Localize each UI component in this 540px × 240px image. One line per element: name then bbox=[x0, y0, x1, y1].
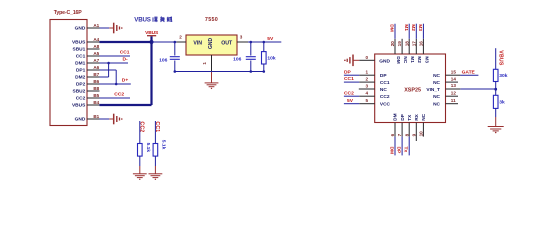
connector pin B1 GND bbox=[75, 114, 100, 123]
resistor R2 30k body bbox=[493, 69, 498, 81]
U1 pin 5 VCC bbox=[344, 98, 391, 107]
U1 pin 15 NC bbox=[433, 69, 460, 79]
U1 pin 8 TX (bottom) bbox=[404, 114, 413, 156]
wire R3 to ground bbox=[495, 108, 497, 126]
capacitor C2 106 bottom wire bbox=[250, 61, 252, 72]
svg-text:GND: GND bbox=[379, 58, 390, 64]
wire B1 GND bbox=[100, 118, 114, 120]
svg-text:A6: A6 bbox=[93, 65, 99, 70]
U1 pin 12 NC bbox=[433, 90, 458, 100]
ground stem under U2 bbox=[211, 72, 213, 83]
svg-text:SBU2: SBU2 bbox=[73, 89, 86, 95]
svg-text:RX: RX bbox=[414, 113, 420, 120]
wire DP1 A6 to vertical bbox=[100, 70, 117, 84]
svg-text:M2: M2 bbox=[416, 56, 422, 63]
svg-text:GND: GND bbox=[75, 117, 86, 123]
node C2 bottom junction bbox=[250, 70, 253, 73]
wire CC2 from B5 bbox=[100, 97, 131, 99]
capacitor C1 106 bottom wire bbox=[174, 61, 176, 72]
svg-text:DP: DP bbox=[396, 147, 402, 155]
svg-text:2: 2 bbox=[179, 35, 182, 40]
svg-text:GND: GND bbox=[75, 26, 86, 32]
wire A1 GND bbox=[100, 27, 114, 29]
U1 pin 16 M3 (top) bbox=[419, 24, 430, 64]
svg-text:13: 13 bbox=[451, 83, 457, 88]
svg-text:A7: A7 bbox=[93, 58, 99, 63]
svg-text:TX: TX bbox=[407, 114, 413, 121]
svg-text:NC: NC bbox=[402, 56, 408, 63]
svg-text:5V: 5V bbox=[267, 36, 274, 42]
power port VBUS bbox=[145, 30, 159, 36]
U1 pin 2 CC1 bbox=[344, 77, 390, 86]
svg-text:DM: DM bbox=[389, 24, 395, 32]
svg-text:CC2: CC2 bbox=[380, 94, 390, 100]
svg-text:D-: D- bbox=[123, 57, 129, 63]
U1 pin 11 NC bbox=[433, 98, 458, 108]
U1 pin 6 DM (bottom) bbox=[390, 113, 399, 155]
U1 pin 7 DP (bottom) bbox=[397, 113, 406, 155]
svg-text:DP: DP bbox=[344, 69, 352, 75]
svg-text:XSP25: XSP25 bbox=[404, 87, 421, 93]
svg-text:B5: B5 bbox=[93, 93, 99, 98]
svg-text:B8: B8 bbox=[93, 86, 99, 91]
svg-text:5: 5 bbox=[365, 98, 368, 103]
svg-text:NC: NC bbox=[380, 87, 387, 93]
label VBUS to load (Chinese) bbox=[134, 17, 172, 24]
svg-text:NC: NC bbox=[433, 102, 440, 108]
svg-text:B1: B1 bbox=[93, 114, 99, 119]
svg-text:M1: M1 bbox=[403, 24, 409, 31]
U1 pin 14 NC bbox=[433, 76, 458, 86]
svg-text:NC: NC bbox=[421, 113, 427, 120]
ground under 5.1k (CC2) bbox=[133, 174, 147, 180]
wire VBUS to R2 bbox=[495, 48, 497, 69]
node divider mid junction bbox=[494, 88, 497, 91]
svg-text:DM: DM bbox=[393, 113, 399, 120]
svg-text:M2: M2 bbox=[410, 24, 416, 31]
svg-text:16: 16 bbox=[419, 41, 424, 47]
svg-text:CC1: CC1 bbox=[120, 50, 130, 56]
svg-text:B6: B6 bbox=[93, 79, 99, 84]
wire 5V output rail bbox=[248, 41, 281, 43]
ground at connector pin B1 bbox=[114, 114, 123, 125]
ground under divider bbox=[488, 127, 504, 134]
ground at U1 pin 0 bbox=[344, 55, 353, 67]
node bottom-left junction bbox=[174, 70, 177, 73]
svg-text:CC1: CC1 bbox=[380, 80, 390, 86]
svg-text:6: 6 bbox=[390, 133, 395, 136]
capacitor C1 106 plates bbox=[170, 57, 180, 60]
svg-text:1: 1 bbox=[365, 70, 368, 75]
U1 pin 18 M1 (top) bbox=[404, 24, 415, 64]
wire VBUS rail to U2 pin 2 bbox=[152, 41, 177, 43]
wire VIN_T from U1 pin 13 to divider bbox=[460, 88, 495, 90]
wire CC1 pulldown bottom bbox=[154, 156, 156, 174]
svg-text:12: 12 bbox=[451, 90, 457, 95]
U2 pin 2 stub bbox=[177, 41, 187, 43]
U1 pin 13 VIN_T bbox=[426, 83, 460, 93]
connector pin A7 DM1 bbox=[75, 58, 99, 67]
svg-text:7: 7 bbox=[397, 133, 402, 136]
connector pin B5 CC2 bbox=[76, 93, 100, 102]
U1 pin 0 GND stub bbox=[353, 59, 374, 61]
svg-text:7550: 7550 bbox=[205, 17, 218, 23]
svg-text:GND: GND bbox=[208, 37, 214, 49]
svg-text:A4: A4 bbox=[93, 37, 99, 42]
svg-text:VBUS: VBUS bbox=[72, 103, 86, 109]
svg-text:10: 10 bbox=[419, 131, 424, 137]
node resistor R1 tap bbox=[263, 41, 266, 44]
U1 pin 19 NC (top) bbox=[397, 39, 408, 64]
svg-text:CC2: CC2 bbox=[114, 92, 124, 98]
svg-text:CC2: CC2 bbox=[76, 96, 86, 102]
wire GATE from U1 pin 15 bbox=[460, 74, 478, 76]
svg-text:19: 19 bbox=[397, 41, 402, 47]
node D+ junction on B6 wire bbox=[115, 83, 118, 86]
svg-text:DP2: DP2 bbox=[76, 82, 86, 88]
resistor R1 10k bottom wire bbox=[263, 64, 265, 72]
svg-text:M3: M3 bbox=[417, 24, 423, 31]
svg-text:OUT: OUT bbox=[221, 41, 233, 47]
svg-text:2: 2 bbox=[365, 77, 368, 82]
wire D- from A7 bbox=[100, 62, 129, 64]
connector pin A5 CC1 bbox=[76, 51, 100, 60]
svg-text:A5: A5 bbox=[93, 51, 99, 56]
resistor 5.1k (CC1) body bbox=[153, 144, 158, 157]
svg-text:DP: DP bbox=[380, 73, 387, 79]
U1 pin 9 RX (bottom) bbox=[411, 113, 420, 141]
wire CC1 pulldown top bbox=[154, 121, 156, 144]
connector pin A1 GND bbox=[75, 23, 100, 32]
wire CC2 pulldown bottom bbox=[139, 156, 141, 174]
svg-text:B4: B4 bbox=[93, 100, 99, 105]
node capacitor C1 tap bbox=[174, 41, 177, 44]
regulator U2 7550 body bbox=[186, 35, 237, 55]
U1 pin 20 DM (top) bbox=[390, 24, 401, 64]
U1 pin 4 CC2 bbox=[344, 91, 390, 100]
svg-text:A8: A8 bbox=[93, 44, 99, 49]
svg-text:B7: B7 bbox=[93, 72, 99, 77]
wire R2 to R3 bbox=[495, 82, 497, 96]
connector pin B7 DM2 bbox=[75, 72, 99, 81]
node D- junction on A7 wire bbox=[107, 62, 110, 65]
svg-text:M1: M1 bbox=[409, 56, 415, 63]
resistor R1 10k top wire bbox=[263, 42, 265, 52]
node R1 bottom junction bbox=[263, 70, 266, 73]
svg-text:1: 1 bbox=[202, 62, 207, 65]
svg-text:DM1: DM1 bbox=[75, 61, 85, 67]
svg-text:NC: NC bbox=[433, 80, 440, 86]
capacitor C1 106 top wire bbox=[174, 42, 176, 56]
svg-text:106: 106 bbox=[233, 56, 241, 62]
svg-text:VCC: VCC bbox=[380, 102, 391, 108]
wire D+ from B6 bbox=[100, 83, 131, 85]
U1 pin 3 NC bbox=[359, 83, 388, 92]
wire CC2 pulldown top bbox=[139, 121, 141, 144]
svg-text:VBUS: VBUS bbox=[72, 40, 86, 46]
connector pin B4 VBUS bbox=[72, 100, 100, 109]
svg-text:15: 15 bbox=[451, 69, 457, 74]
svg-text:Type-C_16P: Type-C_16P bbox=[54, 10, 83, 16]
connector J1 body bbox=[50, 20, 87, 126]
svg-text:3: 3 bbox=[365, 83, 368, 88]
svg-text:8: 8 bbox=[404, 133, 409, 136]
U2 pin 3 stub bbox=[237, 41, 248, 43]
svg-text:11: 11 bbox=[451, 98, 456, 103]
svg-text:Tx: Tx bbox=[403, 147, 409, 153]
svg-text:GATE: GATE bbox=[462, 70, 476, 76]
connector pin B6 DP2 bbox=[76, 79, 100, 88]
svg-text:CC1: CC1 bbox=[344, 76, 354, 82]
svg-text:CC2: CC2 bbox=[139, 121, 145, 132]
resistor R1 10k body bbox=[262, 52, 267, 64]
svg-text:3: 3 bbox=[240, 34, 243, 39]
connector pin A8 SBU1 bbox=[73, 44, 100, 53]
svg-text:5.1k: 5.1k bbox=[161, 140, 167, 150]
svg-text:DP1: DP1 bbox=[76, 68, 86, 74]
connector pin A4 VBUS bbox=[72, 37, 100, 46]
svg-text:DP: DP bbox=[400, 113, 406, 120]
U2 pin 1 GND stub bbox=[211, 55, 213, 76]
svg-text:5V: 5V bbox=[347, 98, 354, 104]
svg-text:DM: DM bbox=[389, 147, 395, 155]
svg-text:14: 14 bbox=[451, 76, 457, 81]
svg-text:10k: 10k bbox=[267, 55, 275, 61]
ground under U2 7550 bbox=[205, 83, 219, 89]
ground under 5.1k (CC1) bbox=[149, 174, 163, 180]
svg-text:30k: 30k bbox=[499, 73, 507, 79]
svg-text:VBUS: VBUS bbox=[145, 30, 159, 36]
svg-text:0: 0 bbox=[365, 55, 368, 60]
svg-text:VIN: VIN bbox=[193, 41, 202, 47]
svg-text:NC: NC bbox=[433, 94, 440, 100]
svg-text:VBUS: VBUS bbox=[134, 17, 150, 24]
capacitor C2 106 plates bbox=[246, 57, 256, 60]
U1 pin 1 DP bbox=[344, 70, 387, 79]
svg-text:9: 9 bbox=[411, 133, 416, 136]
svg-text:17: 17 bbox=[411, 41, 416, 47]
svg-text:CC1: CC1 bbox=[76, 54, 86, 60]
svg-text:5.1k: 5.1k bbox=[145, 143, 151, 153]
wire ground return (bottom) bbox=[175, 71, 264, 73]
IC U1 XSP25 body bbox=[375, 54, 446, 123]
svg-text:A1: A1 bbox=[93, 23, 99, 28]
U1 pin 10 NC (bottom) bbox=[419, 113, 428, 136]
svg-text:3k: 3k bbox=[499, 100, 505, 106]
U1 pin 17 M2 (top) bbox=[411, 24, 422, 64]
svg-text:M3: M3 bbox=[423, 56, 429, 63]
wire VBUS trunk (thick vertical) bbox=[150, 36, 152, 105]
wire DM2 B7 to vertical bbox=[100, 63, 109, 77]
svg-text:NC: NC bbox=[433, 73, 440, 79]
svg-text:VBUS: VBUS bbox=[497, 50, 503, 66]
svg-text:106: 106 bbox=[159, 57, 167, 63]
node capacitor C2 tap bbox=[250, 41, 253, 44]
resistor 5.1k (CC2) body bbox=[138, 144, 143, 157]
svg-text:20: 20 bbox=[390, 41, 395, 47]
node VBUS junction at A4 row bbox=[149, 40, 153, 44]
wire B4 VBUS (thick) bbox=[100, 104, 152, 106]
svg-text:CC2: CC2 bbox=[344, 90, 354, 96]
svg-text:D+: D+ bbox=[122, 78, 129, 84]
ground at connector pin A1 bbox=[114, 23, 123, 34]
svg-text:DM2: DM2 bbox=[75, 75, 85, 81]
connector pin A6 DP1 bbox=[76, 65, 100, 74]
svg-text:4: 4 bbox=[365, 91, 368, 96]
resistor R3 3k body bbox=[493, 95, 498, 108]
svg-text:VIN_T: VIN_T bbox=[426, 87, 440, 93]
svg-text:18: 18 bbox=[404, 41, 409, 47]
connector pin B8 SBU2 bbox=[73, 86, 100, 95]
svg-text:CC1: CC1 bbox=[154, 121, 160, 132]
wire A4 VBUS (thick) bbox=[100, 41, 152, 43]
capacitor C2 106 top wire bbox=[250, 42, 252, 56]
wire CC1 from A5 bbox=[100, 55, 131, 57]
svg-text:DM: DM bbox=[395, 56, 401, 63]
svg-text:SBU1: SBU1 bbox=[73, 47, 86, 53]
